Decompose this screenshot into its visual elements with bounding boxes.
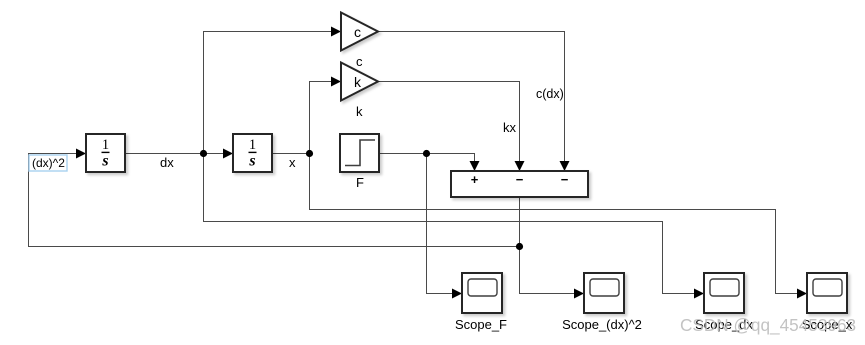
svg-text:k: k (356, 104, 363, 119)
svg-text:c(dx): c(dx) (536, 87, 564, 101)
svg-text:s: s (248, 153, 255, 170)
svg-text:+: + (471, 172, 479, 187)
svg-text:Scope_(dx)^2: Scope_(dx)^2 (562, 317, 642, 332)
svg-text:1: 1 (102, 137, 109, 153)
svg-text:F: F (356, 175, 364, 190)
svg-text:1: 1 (249, 137, 256, 153)
svg-text:dx: dx (160, 155, 174, 170)
svg-text:−: − (561, 172, 569, 187)
svg-text:(dx)^2: (dx)^2 (32, 156, 65, 170)
svg-text:c: c (356, 54, 363, 69)
svg-text:Scope_F: Scope_F (455, 317, 507, 332)
svg-text:CSDN @qq_45453963: CSDN @qq_45453963 (680, 315, 856, 335)
svg-text:s: s (101, 153, 108, 170)
svg-text:k: k (354, 74, 362, 90)
svg-text:−: − (516, 172, 524, 187)
svg-text:kx: kx (503, 120, 517, 135)
svg-text:x: x (289, 155, 296, 170)
svg-text:c: c (354, 24, 361, 40)
